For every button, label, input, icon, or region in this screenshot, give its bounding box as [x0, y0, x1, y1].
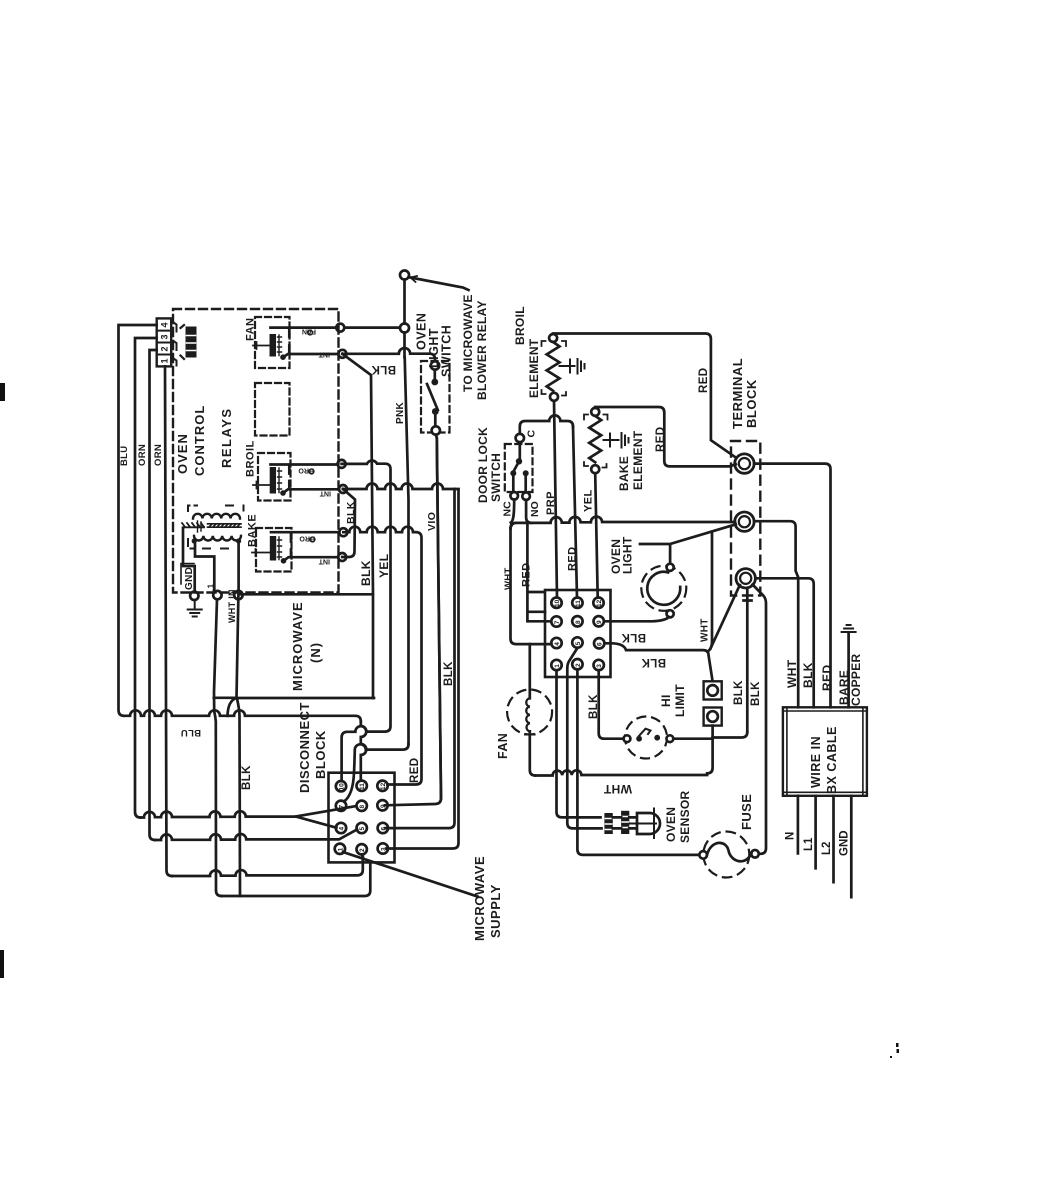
wire lug 2 to BX cable (WHT): [754, 521, 798, 707]
wire fan top to pin 4 wire: [528, 644, 531, 698]
wire pin 3 to BLK vertical B: [387, 490, 459, 849]
terminal lug 1: [735, 454, 754, 473]
wire pin 9 to VIO vertical: [385, 438, 441, 805]
oven sensor connector blocks: [604, 811, 629, 834]
wire pin 1 to oven sensor top: [557, 670, 601, 817]
wire PNK vertical: [405, 357, 409, 744]
svg-text:8: 8: [359, 805, 366, 809]
label TO MICROWAVE BLOWER RELAY: [461, 294, 489, 400]
svg-text:BAKE: BAKE: [247, 514, 259, 547]
svg-text:5: 5: [575, 641, 582, 645]
svg-text:BX CABLE: BX CABLE: [825, 726, 839, 794]
svg-text:DISCONNECT: DISCONNECT: [297, 702, 312, 793]
relay K2 BROIL box: [253, 453, 339, 501]
svg-text:FAN: FAN: [496, 733, 510, 759]
svg-text:YEL: YEL: [583, 489, 595, 512]
bake element R2: [589, 408, 601, 473]
wire pin 2 to bus 5: [362, 855, 363, 858]
transformer T1 core: [208, 524, 242, 527]
svg-text:WHT: WHT: [503, 567, 514, 590]
dashed box OVEN CONTROL: [173, 309, 339, 593]
svg-text:BRO: BRO: [298, 467, 314, 474]
svg-text:BLOWER RELAY: BLOWER RELAY: [475, 300, 489, 400]
label DISCONNECT BLOCK: [297, 702, 328, 793]
terminal WHT IN: [234, 591, 242, 599]
svg-text:ELEMENT: ELEMENT: [631, 430, 645, 490]
svg-text:HI: HI: [659, 694, 673, 707]
svg-text:RED: RED: [521, 563, 533, 587]
wire pin 3 to thermostat: [599, 670, 624, 739]
label MICROWAVE (N): [290, 601, 323, 691]
svg-text:10: 10: [554, 599, 561, 607]
wire YEL vertical (broil top to pin 10): [342, 461, 391, 781]
svg-text:BLK: BLK: [345, 501, 357, 524]
wire BLK main vertical (fan lower diagonal down to microwave box corner): [342, 354, 373, 698]
svg-text:BAKE: BAKE: [617, 456, 631, 491]
transformer T1 primary winding: [193, 514, 240, 519]
hi limit terminal 2: [704, 708, 722, 726]
wire WHT IN continuation down: [237, 699, 240, 897]
svg-text:SWITCH: SWITCH: [440, 325, 454, 377]
wire FAN top to PNK junction: [344, 326, 400, 329]
label OVEN LIGHT SWITCH: [415, 313, 454, 377]
hi limit terminal 1: [704, 681, 722, 699]
connector CN1 (pins 1-4): [157, 318, 177, 366]
label GND with bracket: [181, 564, 195, 591]
wire L1 diagonal down: [214, 600, 222, 897]
svg-text:BLK: BLK: [241, 765, 253, 790]
label TERMINAL BLOCK: [730, 358, 759, 429]
svg-text:SWITCH: SWITCH: [489, 453, 503, 502]
wire PNK lower corner to pin 7: [344, 744, 409, 801]
wire BLU bus: [119, 325, 157, 716]
disconnect block (left) pins: [335, 781, 388, 855]
svg-text:GND: GND: [184, 567, 195, 590]
svg-text:3: 3: [160, 334, 170, 339]
node circle BROIL bottom on box edge: [339, 485, 347, 493]
broil element R1: [534, 334, 560, 401]
wire pin 1 arrow to MICROWAVE SUPPLY: [343, 852, 478, 897]
svg-text:RED: RED: [409, 758, 421, 783]
svg-text:WHT IN: WHT IN: [227, 589, 237, 623]
svg-text:12: 12: [596, 599, 603, 607]
svg-text:INT: INT: [318, 558, 330, 565]
wire arrow to blower relay note: [411, 278, 469, 291]
svg-text:BLK: BLK: [371, 363, 396, 375]
svg-text:WHT: WHT: [603, 782, 632, 796]
label BARE COPPER: [837, 653, 863, 706]
svg-text:YEL: YEL: [377, 553, 391, 578]
svg-text:ORN: ORN: [137, 444, 148, 466]
svg-text:MICROWAVE: MICROWAVE: [290, 601, 305, 691]
svg-text:NC: NC: [502, 501, 514, 517]
svg-text:BLK: BLK: [443, 661, 455, 686]
svg-text:BLK: BLK: [801, 662, 815, 688]
svg-text:LIGHT: LIGHT: [621, 536, 635, 574]
node circle FAN bottom on box edge: [338, 350, 346, 358]
node circle BAKE top on box edge: [339, 528, 347, 536]
junction dot transformer left: [192, 538, 197, 543]
svg-text:5: 5: [359, 827, 366, 831]
svg-text:WIRE IN: WIRE IN: [809, 736, 823, 788]
ground symbol at broil element: [560, 359, 585, 374]
wire L1 stub: [814, 796, 817, 869]
wire NC to bus: [511, 500, 514, 523]
wire BROIL relay top output: [271, 463, 338, 466]
wire pin 9 to lamp bottom: [604, 617, 669, 621]
svg-text:10: 10: [339, 783, 346, 791]
svg-text:L2: L2: [821, 842, 833, 855]
wire WHT vertical from lug2 line: [709, 532, 712, 651]
svg-text:INT: INT: [319, 490, 331, 497]
svg-text:8: 8: [575, 620, 582, 624]
bus 3 horizontal: [141, 811, 337, 828]
wire RED vertical to block: [527, 523, 550, 621]
hatched block (board connector): [181, 325, 197, 359]
bus 4 horizontal: [155, 830, 357, 841]
wire pin 12 to BLK vertical: [388, 532, 422, 784]
BX cable box: [783, 707, 867, 796]
svg-text:BLK: BLK: [359, 560, 373, 586]
node circle PNK junction: [400, 324, 409, 333]
dashed bracket bake element: [584, 415, 608, 468]
terminal lug 3: [736, 569, 755, 588]
wire NO to bus: [526, 500, 532, 523]
svg-text:6: 6: [597, 642, 604, 646]
tiny contact marks BAKE: [299, 535, 330, 565]
svg-text:2: 2: [160, 346, 170, 351]
node circle BAKE bottom on box edge: [338, 553, 346, 561]
bare copper ground wire: [842, 625, 856, 707]
wire GND stub: [850, 796, 853, 897]
ground symbol below GND: [188, 600, 202, 617]
wire ORN bus 1: [135, 338, 157, 818]
label WIRE IN BX CABLE: [809, 726, 839, 794]
svg-text:WHT: WHT: [785, 659, 799, 688]
svg-text:PNK: PNK: [395, 402, 406, 424]
label MICROWAVE SUPPLY: [472, 856, 503, 941]
wire lamp top to terminal lug 2: [640, 524, 736, 563]
wire GND lead: [183, 528, 195, 592]
svg-text:GND: GND: [839, 830, 851, 856]
WHT bottom bus: [535, 770, 707, 775]
svg-text:ELEMENT: ELEMENT: [527, 338, 541, 398]
wire lug 1 to BX cable (RED): [754, 464, 830, 708]
svg-text:BLK: BLK: [641, 656, 666, 668]
svg-text:NO: NO: [529, 501, 541, 517]
svg-text:BLK: BLK: [733, 680, 745, 705]
wire BAKE relay top output: [271, 531, 339, 534]
wire microwave box bottom to bus 2: [214, 698, 237, 716]
terminal L1: [213, 591, 221, 599]
label HI LIMIT: [659, 684, 687, 717]
terminal GND: [190, 592, 198, 600]
svg-text:4: 4: [160, 322, 170, 327]
svg-text:1: 1: [554, 664, 561, 668]
svg-text:1: 1: [160, 358, 170, 363]
relay K3 BAKE box: [252, 528, 338, 572]
svg-text:CONTROL: CONTROL: [192, 405, 207, 476]
node circle oven light switch feed top: [400, 271, 409, 280]
oven light lamp: [641, 564, 686, 618]
left page edge artifacts: [0, 383, 899, 1058]
relay slot (empty) dashed box: [255, 383, 290, 436]
wire VIO from switch bottom: [436, 435, 441, 799]
svg-text:L1: L1: [206, 583, 216, 594]
chassis ground hatch at transformer core: [182, 521, 204, 532]
ground symbol at bake element: [604, 433, 629, 448]
microwave (N) box: [237, 594, 375, 698]
wire PRP broil bottom down to pin 10: [554, 401, 557, 598]
svg-text:11: 11: [359, 783, 366, 790]
svg-text:7: 7: [339, 805, 346, 809]
svg-text:BLOCK: BLOCK: [313, 730, 328, 779]
wire L2 stub: [832, 796, 835, 882]
svg-text:SENSOR: SENSOR: [678, 790, 692, 843]
wire FAN relay top output: [271, 326, 337, 329]
disconnect block (right) outline: [545, 590, 611, 677]
wire pin 2 to fuse: [577, 669, 697, 855]
terminal lug 2: [735, 512, 754, 531]
svg-text:RED: RED: [567, 547, 579, 571]
svg-text:9: 9: [596, 620, 603, 624]
wire FAN lower to oven light switch top: [342, 348, 435, 361]
thermostat switch (dashed circle): [624, 717, 674, 759]
svg-text:4: 4: [554, 642, 561, 646]
wire hi limit bottom to WHT bus: [707, 726, 713, 774]
svg-text:RED: RED: [698, 368, 710, 393]
wire hi limit junction to fuse feed: [713, 732, 748, 738]
svg-text:BROIL: BROIL: [245, 440, 257, 477]
svg-text:BRO: BRO: [299, 535, 315, 542]
wire 4 from connector pin1: [165, 366, 172, 876]
label OVEN CONTROL: [175, 405, 207, 476]
wire broil top to terminal lug 1: [553, 334, 735, 458]
svg-text:TO MICROWAVE: TO MICROWAVE: [461, 294, 475, 392]
bus 2 horizontal: [124, 710, 361, 721]
fuse F1: [699, 832, 758, 878]
wire pin 6 to hi limit bus: [604, 643, 712, 679]
wire lug 3 to BX cable (BLK): [755, 578, 813, 707]
wire lug 3 diagonal to WHT junction: [711, 585, 740, 649]
wire transformer left lead to L1: [194, 541, 214, 591]
svg-text:SUPPLY: SUPPLY: [488, 884, 503, 938]
wire lug 3 diagonal right to fuse right: [753, 585, 767, 854]
bus 6 horizontal: [222, 863, 371, 897]
wire N stub: [797, 796, 800, 854]
disconnect block (right) pins: [551, 598, 604, 671]
svg-text:BLU: BLU: [119, 446, 130, 466]
svg-text:11: 11: [575, 600, 582, 607]
label DOOR LOCK SWITCH: [476, 427, 503, 503]
svg-text:WHT: WHT: [700, 618, 711, 642]
svg-text:2: 2: [359, 848, 366, 852]
svg-text:BLK: BLK: [750, 681, 762, 706]
node circle FAN top on box edge: [336, 324, 344, 332]
svg-text:FAN: FAN: [245, 318, 257, 342]
wire YEL bake bottom down to pin 12: [595, 473, 598, 597]
wire bake top to terminal lug 1: [595, 407, 736, 466]
bus wire to terminal lug 2: [511, 517, 736, 529]
oven light switch OLS: [421, 361, 450, 435]
terminal block dashed outline: [731, 441, 760, 596]
svg-text:RELAYS: RELAYS: [219, 407, 234, 468]
label OVEN LIGHT: [609, 536, 635, 574]
dashed bracket broil element: [542, 341, 567, 396]
svg-text:OVEN: OVEN: [175, 433, 190, 474]
svg-text:4: 4: [339, 827, 346, 831]
svg-text:LIMIT: LIMIT: [673, 684, 687, 717]
wire pin 6 to BLK vertical A: [386, 489, 455, 828]
svg-text:DOOR LOCK: DOOR LOCK: [476, 427, 490, 503]
svg-text:(N): (N): [308, 642, 323, 663]
svg-text:BLOCK: BLOCK: [744, 379, 759, 428]
tiny contact marks BROIL: [298, 467, 331, 497]
svg-text:INT: INT: [318, 351, 330, 358]
node circle BROIL top on box edge: [338, 460, 346, 468]
wire door lock C up and over to 573 vertical: [520, 415, 573, 433]
svg-text:BLU: BLU: [181, 727, 201, 738]
transformer T1 secondary winding: [194, 536, 241, 541]
svg-text:L1: L1: [803, 837, 815, 851]
svg-text:3: 3: [596, 664, 603, 668]
wire ORN bus 2: [150, 350, 157, 840]
svg-text:ORN: ORN: [153, 444, 164, 466]
svg-text:MICROWAVE: MICROWAVE: [472, 856, 487, 941]
door lock switch S2: [505, 434, 533, 500]
wire oven light switch feed vertical: [403, 280, 406, 358]
wire fan bottom to WHT bus: [530, 731, 536, 775]
svg-text:OVEN: OVEN: [664, 807, 678, 842]
oven sensor probe: [629, 809, 660, 839]
label BROIL ELEMENT: [513, 306, 541, 398]
wire bus 3 branch to pin 8: [296, 806, 356, 816]
wire thermostat right to hi limit vertical: [673, 737, 712, 740]
wire BROIL bottom node branches: [342, 489, 355, 557]
svg-text:BLK: BLK: [621, 631, 646, 643]
svg-text:12: 12: [380, 782, 387, 790]
relay K1 FAN box: [253, 317, 337, 368]
svg-text:RED: RED: [655, 427, 667, 452]
svg-text:TERMINAL: TERMINAL: [730, 358, 745, 429]
wire transformer right lead to WHT IN: [237, 541, 240, 591]
svg-text:N: N: [785, 832, 797, 840]
svg-text:FUSE: FUSE: [739, 794, 754, 830]
svg-text:BROIL: BROIL: [513, 306, 527, 345]
svg-text:7: 7: [554, 620, 561, 624]
bus 2 end vertical to pin 11: [361, 721, 367, 780]
svg-text:C: C: [526, 430, 538, 438]
junction dot transformer right: [236, 538, 241, 543]
svg-text:RED: RED: [820, 664, 834, 691]
svg-text:VIO: VIO: [426, 512, 438, 531]
disconnect block (left) outline: [329, 773, 395, 863]
fan motor: [507, 690, 552, 735]
svg-text:COPPER: COPPER: [849, 653, 863, 706]
wire lug 3 straight down to fuse junction: [744, 588, 752, 732]
bus 5 horizontal: [172, 857, 363, 876]
wire WHT vertical to pin 4: [511, 528, 552, 644]
wire 573 vertical down to pin 11: [573, 427, 577, 598]
label BAKE ELEMENT: [617, 430, 645, 491]
wire pin 5 to oven sensor bottom: [567, 648, 601, 828]
wire BAKE top output to 422 vertical: [343, 527, 416, 533]
tiny contact marks FAN: [302, 328, 330, 358]
label OVEN SENSOR: [664, 790, 692, 843]
dashed bracket around transformer: [188, 506, 244, 549]
svg-text:2: 2: [575, 663, 582, 667]
svg-text:BLK: BLK: [588, 694, 600, 719]
